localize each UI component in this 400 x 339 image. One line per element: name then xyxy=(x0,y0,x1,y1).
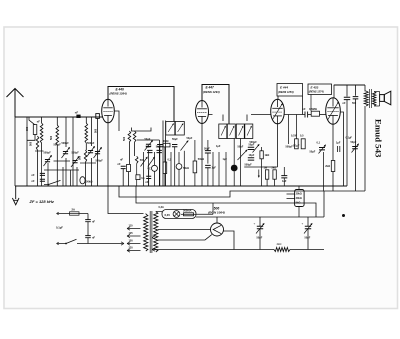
wire xyxy=(37,150,39,186)
svg-text:0,5MΩ: 0,5MΩ xyxy=(309,107,317,111)
switch S2 xyxy=(44,180,61,184)
arrow down (AGC) xyxy=(258,170,259,178)
wire xyxy=(62,167,64,186)
wire xyxy=(35,150,44,152)
bandfilter F2d xyxy=(245,124,253,139)
capacitor C1 xyxy=(76,115,80,118)
wire xyxy=(158,140,160,186)
capacitor xyxy=(40,179,45,181)
wire left rail xyxy=(26,117,28,186)
variable capacitor xyxy=(352,147,358,149)
wire xyxy=(247,115,271,122)
resistor (pot body) xyxy=(80,177,85,184)
bandfilter F1b xyxy=(175,122,184,136)
wire V1 side xyxy=(114,111,119,131)
wire xyxy=(207,153,209,164)
wire V2 anode link xyxy=(209,115,224,122)
wire xyxy=(164,174,166,187)
tube V1 xyxy=(102,99,115,123)
wire xyxy=(274,179,276,186)
variable capacitor xyxy=(63,152,68,154)
capacitor xyxy=(205,151,211,153)
wire xyxy=(196,203,213,214)
variable capacitor xyxy=(45,160,50,162)
svg-text:50µF: 50µF xyxy=(238,146,244,149)
svg-text:500µF: 500µF xyxy=(245,163,253,166)
svg-text:1W: 1W xyxy=(264,167,268,170)
wire V4 plate xyxy=(333,85,335,98)
dial lamp xyxy=(173,211,180,218)
wire xyxy=(85,117,87,123)
wire xyxy=(148,179,150,187)
wire xyxy=(76,167,78,186)
svg-text:nF: nF xyxy=(32,174,36,177)
svg-text:4kΩ: 4kΩ xyxy=(277,242,282,246)
wire anode2 xyxy=(158,235,212,240)
svg-text:20kΩ: 20kΩ xyxy=(296,192,302,195)
trimmer (circle) xyxy=(176,164,182,170)
svg-text:125: 125 xyxy=(129,232,134,235)
resistor R8 xyxy=(273,170,276,179)
wire xyxy=(156,211,162,213)
svg-text:nF: nF xyxy=(92,236,96,239)
svg-text:nF: nF xyxy=(75,111,79,115)
wire xyxy=(91,117,93,146)
capacitor xyxy=(85,236,91,238)
svg-text:0,1W: 0,1W xyxy=(291,135,297,138)
mains plug top xyxy=(57,213,89,215)
wire xyxy=(178,169,180,186)
wire xyxy=(65,117,67,147)
wire xyxy=(65,158,67,170)
svg-text:500: 500 xyxy=(95,128,98,133)
wire xyxy=(41,151,43,186)
bandfilter F2c xyxy=(236,124,244,139)
wire xyxy=(91,158,93,186)
capacitor xyxy=(305,112,308,118)
output transformer secondary xyxy=(373,92,376,107)
wire grid line xyxy=(97,118,99,186)
svg-text:110: 110 xyxy=(129,224,134,227)
coil IF1b xyxy=(133,131,136,142)
coil L2 xyxy=(36,136,38,150)
wire xyxy=(27,135,35,141)
wire xyxy=(85,143,87,150)
wire xyxy=(143,152,145,186)
svg-text:+: + xyxy=(302,222,304,226)
capacitor box xyxy=(301,139,305,149)
wire xyxy=(164,147,166,162)
wire xyxy=(145,213,147,216)
svg-text:2kΩ: 2kΩ xyxy=(325,165,330,168)
wire xyxy=(207,168,209,186)
resistor R10 xyxy=(295,139,299,149)
capacitor xyxy=(146,176,151,178)
wire xyxy=(178,152,180,164)
wire xyxy=(298,207,300,218)
resistor R11 xyxy=(331,161,335,172)
capacitor C2 xyxy=(96,114,100,119)
capacitor xyxy=(172,145,177,147)
capacitor xyxy=(353,97,359,99)
svg-text:0,1µF: 0,1µF xyxy=(56,225,63,229)
tap 220V xyxy=(127,249,141,252)
lamp assembly xyxy=(162,210,196,219)
svg-text:2A: 2A xyxy=(72,208,75,212)
wire xyxy=(295,115,297,139)
svg-text:500: 500 xyxy=(352,102,357,105)
svg-text:150: 150 xyxy=(129,239,134,242)
svg-text:50kΩ: 50kΩ xyxy=(183,167,189,170)
wire xyxy=(87,214,89,220)
wire xyxy=(183,151,185,186)
svg-text:500: 500 xyxy=(30,141,33,146)
svg-text:1µF: 1µF xyxy=(212,166,217,169)
capacitor xyxy=(157,150,162,152)
resistor R7 xyxy=(265,170,268,179)
wire anode V3 xyxy=(284,114,305,116)
wire xyxy=(225,152,227,186)
svg-text:0,1µF: 0,1µF xyxy=(346,137,353,140)
wire bottom rail2 xyxy=(290,249,324,251)
svg-text:50µF: 50µF xyxy=(310,151,316,154)
svg-text:500: 500 xyxy=(79,155,82,160)
capacitor xyxy=(157,145,162,147)
output transformer primary xyxy=(364,91,368,106)
divider resistor xyxy=(295,190,305,207)
variable capacitor xyxy=(148,157,155,166)
speaker xyxy=(380,95,385,102)
svg-text:50kΩ: 50kΩ xyxy=(86,180,92,184)
wire xyxy=(72,117,74,186)
resistor R1 xyxy=(33,125,37,135)
svg-text:0,1: 0,1 xyxy=(317,142,321,145)
resistor R12 (field coil) xyxy=(274,248,290,252)
wire xyxy=(134,142,136,156)
svg-text:E 453: E 453 xyxy=(311,86,319,90)
variable capacitor xyxy=(141,157,148,166)
svg-text:220: 220 xyxy=(129,246,134,249)
variable capacitor xyxy=(72,161,77,163)
wire xyxy=(240,139,242,187)
wire xyxy=(207,140,209,151)
svg-text:1µF: 1µF xyxy=(216,145,221,148)
capacitor xyxy=(205,165,211,167)
wire xyxy=(355,85,357,96)
wire xyxy=(162,121,164,187)
wire xyxy=(41,143,43,151)
variable capacitor xyxy=(181,141,189,151)
wire xyxy=(128,172,130,186)
capacitor xyxy=(344,97,350,99)
wire cathode xyxy=(224,231,235,250)
wire speaker top xyxy=(374,91,379,93)
mains plug bottom xyxy=(57,243,125,245)
resistor R5 xyxy=(193,161,197,173)
wire anode xyxy=(158,229,211,231)
capacitor xyxy=(40,173,45,175)
svg-text:1MΩ: 1MΩ xyxy=(163,140,168,143)
svg-text:nF: nF xyxy=(32,180,36,183)
wire xyxy=(148,151,150,186)
capacitor xyxy=(147,150,152,152)
lamp VC xyxy=(152,165,158,171)
svg-text:0,5: 0,5 xyxy=(300,135,304,138)
wire xyxy=(283,167,285,176)
svg-text:50µF: 50µF xyxy=(172,138,178,141)
variable capacitor xyxy=(146,144,151,146)
antenna xyxy=(7,89,24,118)
wire xyxy=(365,85,366,91)
svg-text:50µF: 50µF xyxy=(257,237,263,240)
switch S1 xyxy=(29,117,35,125)
wire segment xyxy=(80,162,96,164)
wire xyxy=(165,121,167,187)
coil IF1c xyxy=(135,156,138,163)
wire xyxy=(119,186,365,197)
wire segment xyxy=(54,160,71,162)
wire xyxy=(266,179,268,186)
coil L4 xyxy=(85,123,88,143)
capacitor xyxy=(248,158,254,160)
coil L1 xyxy=(40,123,43,143)
wire xyxy=(261,159,263,186)
svg-text:500pF: 500pF xyxy=(87,142,95,145)
wire xyxy=(323,152,325,191)
variable capacitor xyxy=(95,152,100,154)
svg-text:nF: nF xyxy=(303,108,307,111)
capacitor+arrow xyxy=(319,148,325,150)
transformer core xyxy=(369,89,371,108)
resistor R6 xyxy=(260,151,263,159)
svg-text:1kΩ: 1kΩ xyxy=(265,154,270,157)
wire xyxy=(108,186,144,214)
wire V4 cathode xyxy=(332,124,334,160)
filter cap 2 + xyxy=(307,217,309,226)
wire xyxy=(244,166,277,168)
coil L3 xyxy=(56,125,59,145)
wire V2 cathode xyxy=(201,124,203,187)
wire xyxy=(233,171,235,186)
svg-text:10µF: 10µF xyxy=(249,154,255,157)
wire V4 side xyxy=(340,112,343,186)
svg-text:300: 300 xyxy=(26,126,29,131)
wire xyxy=(47,163,49,186)
bandfilter F1a xyxy=(166,122,175,136)
wire xyxy=(218,152,220,186)
svg-text:nF: nF xyxy=(120,159,124,162)
power transformer secondary xyxy=(154,212,158,253)
potentiometer xyxy=(238,150,248,160)
wire xyxy=(308,114,312,116)
variable capacitor xyxy=(88,151,93,153)
wire xyxy=(216,217,218,223)
tube V3 xyxy=(271,99,285,124)
svg-text:500pF: 500pF xyxy=(250,141,258,144)
transformer core xyxy=(149,211,151,253)
wire xyxy=(14,117,16,186)
power transformer primary xyxy=(144,214,148,251)
wire xyxy=(298,186,300,190)
wire xyxy=(41,117,43,123)
fuse 500mA xyxy=(184,213,194,216)
capacitor box xyxy=(136,175,140,180)
bandfilter F2a xyxy=(219,124,227,139)
wire xyxy=(56,117,58,125)
svg-text:50µF: 50µF xyxy=(249,144,255,147)
svg-text:2kΩ: 2kΩ xyxy=(272,167,277,170)
capacitor xyxy=(248,147,254,149)
svg-text:1µF: 1µF xyxy=(223,158,228,161)
svg-text:500pF: 500pF xyxy=(96,160,104,163)
wire xyxy=(233,139,235,165)
svg-text:50µF: 50µF xyxy=(305,237,311,240)
filter cap + xyxy=(259,217,261,226)
resistor R9 xyxy=(311,111,319,116)
tube V1 anode loop xyxy=(108,87,174,122)
wire xyxy=(332,172,334,192)
tube V2 anode loop xyxy=(202,85,229,125)
svg-text:nF: nF xyxy=(92,220,96,223)
wire xyxy=(154,171,156,186)
coil L5 xyxy=(84,150,86,162)
svg-text:500pF: 500pF xyxy=(44,152,52,155)
capacitor xyxy=(85,220,91,222)
spot artifact xyxy=(342,214,345,217)
wire xyxy=(85,162,87,186)
capacitor xyxy=(338,146,340,152)
wire xyxy=(137,139,160,141)
wire xyxy=(277,96,279,99)
tube V4 xyxy=(326,98,341,125)
ground xyxy=(12,186,19,205)
wire xyxy=(132,128,152,132)
wire xyxy=(122,169,124,186)
resistor R2 xyxy=(127,164,131,171)
svg-text:500: 500 xyxy=(50,135,53,140)
svg-text:+: + xyxy=(254,222,256,226)
svg-text:5kΩ: 5kΩ xyxy=(296,202,301,205)
wire xyxy=(136,180,138,186)
resistor R4 xyxy=(163,162,167,174)
svg-text:50kΩ: 50kΩ xyxy=(198,158,204,161)
wire V1 cathode xyxy=(107,123,109,186)
svg-text:50µF: 50µF xyxy=(187,137,193,140)
tube V2 xyxy=(196,101,209,124)
wire xyxy=(346,85,348,97)
wire xyxy=(288,115,290,145)
svg-text:500mA: 500mA xyxy=(183,209,192,213)
tap 110V xyxy=(127,227,141,230)
capacitor xyxy=(121,166,126,168)
fuse 2A xyxy=(70,212,80,215)
svg-text:1µF: 1µF xyxy=(336,142,341,145)
plug arrow xyxy=(121,242,124,245)
svg-text:(RENS 1264): (RENS 1264) xyxy=(110,92,127,96)
wire ground bus xyxy=(15,185,347,187)
wire xyxy=(174,147,176,186)
svg-text:500pF: 500pF xyxy=(72,152,80,155)
wire B+ top rail xyxy=(334,84,365,86)
wire xyxy=(283,178,285,186)
tap 125V xyxy=(127,234,141,237)
rectifier tube xyxy=(211,223,224,236)
svg-text:20kΩ: 20kΩ xyxy=(296,197,302,200)
wire xyxy=(323,191,325,217)
svg-text:0,3A: 0,3A xyxy=(159,206,164,209)
wire xyxy=(65,170,67,186)
svg-text:(RGN 1064): (RGN 1064) xyxy=(208,211,225,215)
wire xyxy=(136,186,316,217)
wire V3 cathode xyxy=(277,124,279,167)
svg-text:6,3V: 6,3V xyxy=(165,213,171,217)
svg-text:nF: nF xyxy=(343,102,347,105)
wire xyxy=(302,96,304,115)
winding tap arrows xyxy=(152,236,155,251)
label box V3 xyxy=(277,84,303,97)
wire xyxy=(87,222,89,236)
wire xyxy=(69,170,71,186)
wire xyxy=(310,95,312,112)
label box V4 xyxy=(308,84,332,95)
svg-text:nF: nF xyxy=(37,121,41,124)
wire B+ rail xyxy=(196,216,324,218)
svg-text:0,3: 0,3 xyxy=(168,159,172,162)
switch S3 xyxy=(66,239,77,243)
svg-text:0,1µF: 0,1µF xyxy=(293,145,300,148)
wire xyxy=(364,106,366,191)
svg-text:(RENS 1374): (RENS 1374) xyxy=(309,91,324,94)
coil IF1a xyxy=(128,131,131,142)
wire xyxy=(148,170,150,176)
svg-text:500pF: 500pF xyxy=(54,144,62,147)
svg-text:500pF: 500pF xyxy=(62,142,70,145)
svg-text:E 444: E 444 xyxy=(280,86,288,90)
svg-text:ZF = 128 kHz: ZF = 128 kHz xyxy=(29,199,54,204)
bandfilter F2b xyxy=(227,124,235,139)
wire xyxy=(346,100,348,186)
svg-text:nF: nF xyxy=(118,163,122,166)
wire xyxy=(154,152,156,165)
wire xyxy=(194,173,196,186)
svg-text:Emud 543: Emud 543 xyxy=(374,119,384,158)
wire xyxy=(159,147,161,186)
wire xyxy=(56,145,58,186)
wire xyxy=(261,147,263,151)
svg-text:(RENS 1254): (RENS 1254) xyxy=(278,90,294,94)
wire xyxy=(87,238,89,244)
wire top bus xyxy=(15,116,103,118)
wire xyxy=(44,169,79,171)
capacitor xyxy=(281,176,287,178)
wire xyxy=(170,152,172,186)
wire xyxy=(136,163,138,174)
wire xyxy=(128,142,130,164)
tap 150V xyxy=(127,242,141,245)
lamp (tuning indicator) xyxy=(231,165,238,172)
wire xyxy=(194,140,196,161)
svg-text:(RENS 1294): (RENS 1294) xyxy=(203,90,220,94)
variable capacitor xyxy=(253,145,260,153)
wire bottom rail xyxy=(152,249,274,251)
divider taps xyxy=(287,194,295,199)
svg-text:500: 500 xyxy=(123,136,126,141)
wire xyxy=(355,99,357,191)
svg-text:VC: VC xyxy=(147,167,151,171)
wire speaker bot xyxy=(374,105,379,107)
resistor R3 xyxy=(163,143,170,147)
svg-text:50µF: 50µF xyxy=(145,138,151,141)
